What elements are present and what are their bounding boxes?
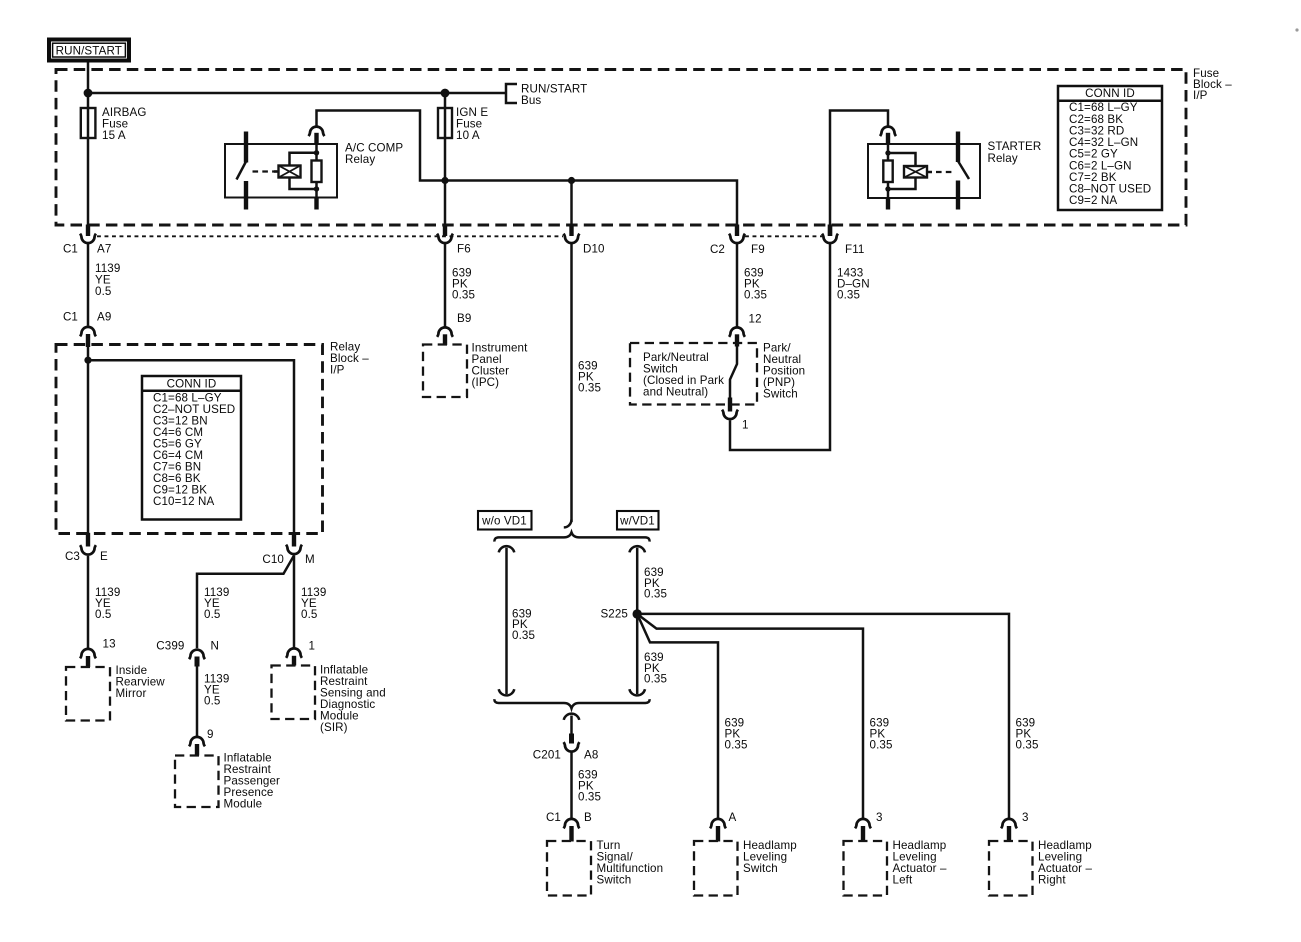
svg-text:Relay: Relay [345, 153, 375, 166]
svg-text:Switch: Switch [763, 388, 798, 401]
svg-text:w/VD1: w/VD1 [619, 515, 655, 528]
svg-text:0.5: 0.5 [95, 285, 111, 298]
svg-text:0.35: 0.35 [837, 289, 860, 302]
svg-text:F6: F6 [457, 243, 471, 256]
svg-text:D10: D10 [583, 243, 605, 256]
svg-text:S225: S225 [600, 608, 628, 621]
svg-text:C1: C1 [63, 311, 78, 324]
svg-text:10 A: 10 A [456, 129, 480, 142]
svg-text:and Neutral): and Neutral) [643, 386, 708, 399]
svg-text:CONN ID: CONN ID [1085, 87, 1135, 100]
svg-text:C1: C1 [546, 811, 561, 824]
svg-text:Right: Right [1038, 874, 1066, 887]
svg-text:C2: C2 [710, 243, 725, 256]
svg-text:15 A: 15 A [102, 129, 126, 142]
svg-text:3: 3 [876, 811, 883, 824]
svg-text:C1: C1 [63, 243, 78, 256]
svg-text:F11: F11 [845, 243, 864, 256]
svg-text:Bus: Bus [521, 94, 541, 107]
svg-text:0.35: 0.35 [578, 382, 601, 395]
svg-text:A8: A8 [584, 749, 598, 762]
svg-text:0.35: 0.35 [870, 739, 893, 752]
svg-text:Left: Left [893, 874, 913, 887]
svg-text:A9: A9 [97, 311, 111, 324]
svg-text:Switch: Switch [743, 862, 778, 875]
svg-text:0.35: 0.35 [452, 289, 475, 302]
svg-text:9: 9 [207, 728, 214, 741]
svg-text:A: A [729, 811, 737, 824]
svg-text:Switch: Switch [597, 874, 632, 887]
svg-text:1: 1 [309, 640, 316, 653]
svg-text:w/o VD1: w/o VD1 [481, 515, 527, 528]
svg-text:E: E [100, 550, 108, 563]
svg-text:0.5: 0.5 [204, 608, 220, 621]
svg-text:RUN/START: RUN/START [56, 45, 122, 58]
svg-text:I/P: I/P [1193, 89, 1208, 102]
svg-text:13: 13 [103, 638, 116, 651]
svg-text:B9: B9 [457, 312, 471, 325]
svg-text:C10: C10 [262, 553, 284, 566]
svg-text:B: B [584, 811, 592, 824]
svg-text:Mirror: Mirror [116, 687, 147, 700]
svg-text:N: N [211, 640, 220, 653]
svg-text:0.35: 0.35 [512, 629, 535, 642]
svg-text:0.35: 0.35 [1016, 739, 1039, 752]
svg-text:0.35: 0.35 [644, 588, 667, 601]
svg-text:(IPC): (IPC) [472, 376, 500, 389]
svg-text:0.5: 0.5 [95, 608, 111, 621]
svg-text:12: 12 [749, 313, 762, 326]
svg-text:C201: C201 [533, 749, 561, 762]
svg-text:3: 3 [1022, 811, 1029, 824]
svg-text:C10=12 NA: C10=12 NA [153, 495, 214, 508]
svg-text:0.35: 0.35 [725, 739, 748, 752]
svg-text:A7: A7 [97, 243, 111, 256]
svg-text:C9=2 NA: C9=2 NA [1069, 194, 1117, 207]
svg-text:M: M [305, 553, 315, 566]
svg-text:Module: Module [224, 798, 263, 811]
svg-text:(SIR): (SIR) [320, 721, 348, 734]
svg-text:0.5: 0.5 [301, 608, 317, 621]
svg-text:0.35: 0.35 [744, 289, 767, 302]
svg-text:Relay: Relay [988, 152, 1018, 165]
svg-text:1: 1 [742, 419, 749, 432]
svg-text:F9: F9 [751, 243, 765, 256]
svg-text:C399: C399 [156, 640, 184, 653]
svg-text:CONN ID: CONN ID [167, 378, 217, 391]
svg-text:0.35: 0.35 [578, 791, 601, 804]
svg-text:C3: C3 [65, 550, 80, 563]
svg-text:0.35: 0.35 [644, 673, 667, 686]
svg-text:I/P: I/P [330, 364, 345, 377]
svg-text:0.5: 0.5 [204, 695, 220, 708]
